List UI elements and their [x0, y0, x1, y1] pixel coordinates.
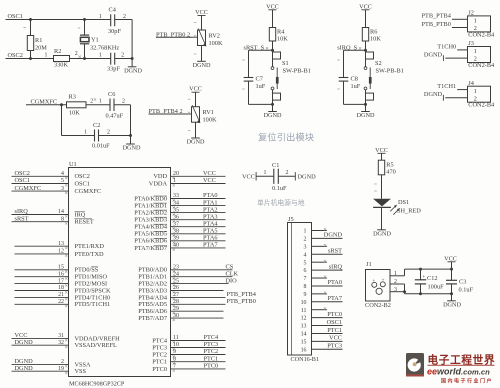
svg-text:DGND: DGND: [373, 230, 391, 237]
svg-text:5: 5: [304, 260, 307, 266]
svg-text:T1CH0: T1CH0: [437, 43, 456, 50]
svg-text:OSC2: OSC2: [8, 52, 23, 59]
svg-text:14: 14: [58, 209, 64, 215]
svg-text:sRST: sRST: [328, 248, 342, 255]
svg-text:DGND: DGND: [15, 365, 34, 372]
svg-text:DS1: DS1: [398, 199, 409, 206]
svg-text:2: 2: [90, 99, 93, 105]
svg-text:PTA5: PTA5: [203, 228, 218, 235]
svg-text:12: 12: [58, 249, 64, 255]
svg-text:VCC: VCC: [329, 335, 342, 342]
svg-text:3: 3: [61, 186, 64, 192]
svg-text:C12: C12: [427, 275, 438, 282]
svg-text:29: 29: [173, 306, 179, 312]
svg-text:16: 16: [58, 271, 64, 277]
svg-text:DGND: DGND: [298, 174, 317, 181]
svg-text:2: 2: [474, 25, 477, 32]
svg-text:T1CH1: T1CH1: [437, 83, 456, 90]
svg-text:33: 33: [173, 193, 179, 199]
svg-text:6: 6: [304, 268, 307, 274]
svg-text:CON2-B4: CON2-B4: [468, 102, 495, 109]
svg-text:PTC3: PTC3: [327, 343, 342, 350]
svg-text:PTA0: PTA0: [327, 279, 342, 286]
svg-text:4: 4: [61, 171, 64, 177]
svg-text:PTA6: PTA6: [203, 235, 218, 242]
svg-text:2: 2: [75, 51, 78, 57]
svg-text:J3: J3: [468, 40, 474, 47]
svg-text:DGND: DGND: [123, 145, 141, 152]
svg-text:C3: C3: [459, 278, 466, 285]
svg-text:J4: J4: [468, 80, 474, 87]
svg-text:470: 470: [386, 169, 395, 176]
svg-text:1: 1: [45, 53, 48, 59]
svg-text:sIRQ: sIRQ: [329, 263, 343, 270]
svg-text:DGND: DGND: [424, 91, 443, 98]
svg-text:38: 38: [173, 229, 179, 235]
svg-text:39: 39: [173, 236, 179, 242]
svg-text:16: 16: [301, 347, 307, 353]
svg-text:DGND: DGND: [324, 232, 343, 239]
svg-text:PTA1: PTA1: [203, 199, 218, 206]
svg-text:1: 1: [264, 170, 267, 176]
svg-text:1: 1: [99, 99, 102, 105]
svg-text:R5: R5: [386, 161, 393, 168]
svg-text:CGMXFC: CGMXFC: [75, 188, 102, 195]
svg-text:PTB_PTB0 2: PTB_PTB0 2: [156, 32, 190, 39]
svg-text:J1: J1: [366, 261, 372, 268]
svg-text:DGND: DGND: [124, 67, 142, 74]
svg-text:PTB_PTB0: PTB_PTB0: [421, 21, 450, 28]
svg-text:37: 37: [173, 221, 179, 227]
svg-text:PTC1: PTC1: [152, 359, 167, 366]
svg-text:PTB7/AD7: PTB7/AD7: [138, 315, 167, 322]
svg-text:28: 28: [173, 299, 179, 305]
svg-text:PTC3: PTC3: [204, 341, 219, 348]
svg-text:OSC1: OSC1: [8, 13, 23, 20]
svg-text:9: 9: [304, 292, 307, 298]
svg-text:R6: R6: [370, 28, 377, 35]
svg-text:J5: J5: [288, 216, 294, 223]
svg-text:PTA5/KBD5: PTA5/KBD5: [134, 231, 167, 238]
svg-text:PTC4: PTC4: [204, 334, 220, 341]
svg-text:1: 1: [99, 14, 102, 20]
svg-text:100uF: 100uF: [428, 283, 445, 290]
svg-text:S2: S2: [375, 60, 382, 67]
svg-text:PTA6/KBD6: PTA6/KBD6: [134, 238, 167, 245]
svg-text:SW-PB-B1: SW-PB-B1: [283, 68, 311, 75]
svg-text:PTC1: PTC1: [327, 327, 342, 334]
svg-text:VCC: VCC: [189, 86, 202, 93]
svg-text:OSC1: OSC1: [75, 180, 90, 187]
svg-text:OSC1: OSC1: [327, 319, 342, 326]
svg-text:VSSAD/VREFL: VSSAD/VREFL: [75, 342, 117, 349]
svg-text:RV1: RV1: [203, 109, 214, 116]
svg-text:C7: C7: [256, 76, 263, 83]
svg-text:330K: 330K: [54, 62, 68, 69]
svg-text:CON16-B1: CON16-B1: [291, 356, 320, 363]
svg-text:DGND: DGND: [193, 62, 211, 69]
svg-text:33pF: 33pF: [107, 65, 120, 72]
svg-text:1: 1: [99, 52, 102, 58]
svg-text:31: 31: [58, 333, 64, 339]
svg-text:15: 15: [58, 265, 64, 271]
svg-text:15: 15: [301, 339, 307, 345]
svg-text:0.1uF: 0.1uF: [272, 185, 287, 192]
svg-text:0.47uF: 0.47uF: [106, 113, 124, 120]
svg-text:13: 13: [58, 241, 64, 247]
svg-text:单片机电源与地: 单片机电源与地: [257, 198, 305, 207]
svg-text:VCC: VCC: [444, 255, 457, 262]
svg-text:U1: U1: [69, 161, 77, 168]
svg-text:8: 8: [61, 216, 64, 222]
svg-text:10K: 10K: [69, 109, 80, 116]
svg-text:8: 8: [173, 356, 176, 362]
svg-text:3: 3: [304, 244, 307, 250]
svg-text:18: 18: [58, 285, 64, 291]
svg-text:PTC0: PTC0: [327, 311, 342, 318]
svg-text:PTC4: PTC4: [152, 337, 168, 344]
svg-text:24: 24: [173, 271, 179, 277]
svg-text:CGMXFC: CGMXFC: [15, 185, 42, 192]
svg-text:DGND: DGND: [264, 112, 282, 119]
svg-text:+: +: [382, 278, 385, 283]
svg-text:7: 7: [173, 364, 176, 370]
svg-text:32: 32: [58, 340, 64, 346]
svg-text:CON2-B4: CON2-B4: [468, 31, 495, 38]
svg-text:SW-PB-B1: SW-PB-B1: [376, 68, 404, 75]
svg-text:C6: C6: [108, 91, 115, 98]
svg-text:S1: S1: [282, 60, 289, 67]
svg-text:PTA4/KBD4: PTA4/KBD4: [134, 224, 168, 231]
svg-text:SH_RED: SH_RED: [397, 207, 421, 214]
svg-text:MC68HC908GP32CP: MC68HC908GP32CP: [69, 381, 125, 388]
svg-text:R4: R4: [277, 28, 285, 35]
svg-text:2: 2: [286, 170, 289, 176]
svg-text:30pF: 30pF: [108, 28, 121, 35]
svg-text:OSC2: OSC2: [75, 173, 90, 180]
svg-text:VCC: VCC: [195, 9, 208, 16]
svg-text:PTB_PTB4: PTB_PTB4: [421, 13, 451, 20]
svg-text:PTA7: PTA7: [203, 242, 218, 249]
svg-text:19: 19: [58, 366, 64, 372]
svg-text:11: 11: [173, 335, 179, 341]
svg-text:IRQ: IRQ: [75, 211, 86, 218]
svg-text:21: 21: [58, 292, 64, 298]
svg-text:PTA2: PTA2: [203, 206, 218, 213]
svg-text:PTE1/RXD: PTE1/RXD: [75, 243, 105, 250]
svg-text:23: 23: [173, 265, 179, 271]
svg-text:1: 1: [304, 229, 307, 235]
svg-text:1: 1: [474, 48, 477, 55]
svg-text:2: 2: [474, 95, 477, 102]
svg-text:2: 2: [122, 99, 125, 105]
svg-text:国内电子行业门户: 国内电子行业门户: [441, 377, 493, 384]
svg-text:35: 35: [173, 207, 179, 213]
svg-text:DGND: DGND: [357, 112, 375, 119]
svg-text:100K: 100K: [209, 40, 223, 47]
svg-text:电子工程世界: 电子工程世界: [428, 354, 496, 367]
svg-text:PTA7: PTA7: [327, 295, 342, 302]
svg-text:sRST: sRST: [15, 215, 29, 222]
svg-text:+: +: [372, 279, 375, 284]
svg-text:7: 7: [304, 276, 307, 282]
svg-text:1: 1: [474, 18, 477, 25]
svg-text:2: 2: [304, 237, 307, 243]
svg-text:32.768KHz: 32.768KHz: [90, 44, 119, 51]
svg-text:+: +: [422, 274, 425, 280]
svg-text:VCC: VCC: [203, 170, 216, 177]
svg-text:VDD: VDD: [153, 173, 167, 180]
svg-text:VDDA: VDDA: [149, 180, 168, 187]
svg-text:0.01uF: 0.01uF: [92, 142, 110, 149]
svg-text:20M: 20M: [35, 44, 47, 51]
svg-text:R1: R1: [35, 37, 42, 44]
svg-text:10K: 10K: [277, 36, 288, 43]
svg-text:25: 25: [173, 278, 179, 284]
svg-text:PTC0: PTC0: [152, 366, 167, 373]
svg-text:10: 10: [173, 342, 179, 348]
svg-text:PTA0/KBD0: PTA0/KBD0: [134, 195, 167, 202]
svg-text:34: 34: [173, 200, 179, 206]
svg-text:13: 13: [301, 324, 307, 330]
svg-text:C4: C4: [109, 7, 117, 14]
svg-text:J2: J2: [468, 10, 474, 17]
svg-text:DGND: DGND: [443, 301, 461, 308]
svg-text:C2: C2: [93, 122, 100, 129]
svg-text:1: 1: [84, 129, 87, 135]
svg-text:PTA7/KBD7: PTA7/KBD7: [134, 245, 167, 252]
svg-text:2: 2: [474, 56, 477, 63]
svg-text:VCC: VCC: [375, 147, 388, 154]
svg-text:PTA4: PTA4: [203, 220, 218, 227]
svg-text:PTB_PTB4 2: PTB_PTB4 2: [149, 108, 183, 115]
svg-text:RESET: RESET: [75, 219, 94, 226]
svg-text:CON2-B2: CON2-B2: [365, 302, 391, 309]
svg-text:5: 5: [61, 178, 64, 184]
svg-text:PTC1: PTC1: [204, 355, 219, 362]
svg-text:1: 1: [474, 88, 477, 95]
svg-text:DIO: DIO: [226, 277, 238, 284]
svg-text:1: 1: [173, 178, 176, 184]
svg-text:sIRQ: sIRQ: [15, 208, 29, 215]
svg-text:CON2-B4: CON2-B4: [468, 62, 495, 69]
svg-text:PTA0: PTA0: [203, 192, 218, 199]
svg-text:RV2: RV2: [209, 33, 220, 40]
svg-text:2: 2: [121, 52, 124, 58]
svg-text:DGND: DGND: [187, 139, 205, 146]
svg-text:2: 2: [61, 359, 64, 365]
svg-text:PTC3: PTC3: [152, 344, 167, 351]
svg-text:PTA2/KBD2: PTA2/KBD2: [134, 210, 167, 217]
svg-text:eeworld.com.cn: eeworld.com.cn: [427, 367, 490, 377]
svg-text:11: 11: [301, 308, 307, 314]
svg-text:26: 26: [173, 285, 179, 291]
svg-text:Y1: Y1: [91, 37, 99, 44]
svg-text:20: 20: [173, 171, 179, 177]
svg-text:PTE0/TXD: PTE0/TXD: [75, 251, 104, 258]
svg-text:OSC1: OSC1: [15, 177, 30, 184]
svg-text:DGND: DGND: [424, 52, 443, 59]
svg-text:PTC2: PTC2: [204, 348, 219, 355]
svg-text:1uF: 1uF: [351, 83, 361, 90]
svg-text:PTA3: PTA3: [203, 213, 218, 220]
svg-text:22: 22: [58, 299, 64, 305]
svg-text:17: 17: [58, 278, 64, 284]
svg-text:27: 27: [173, 292, 179, 298]
svg-text:PTA1/KBD1: PTA1/KBD1: [134, 203, 167, 210]
svg-text:10: 10: [301, 300, 307, 306]
svg-text:2: 2: [123, 14, 126, 20]
svg-text:VCC: VCC: [203, 177, 216, 184]
svg-text:C8: C8: [351, 76, 358, 83]
svg-text:PTD5/T1CH1: PTD5/T1CH1: [75, 301, 111, 308]
svg-text:8: 8: [304, 284, 307, 290]
svg-text:10K: 10K: [370, 36, 381, 43]
svg-text:9: 9: [173, 349, 176, 355]
svg-text:2: 2: [107, 129, 110, 135]
svg-text:0.1uF: 0.1uF: [459, 286, 474, 293]
svg-text:R2: R2: [54, 48, 61, 55]
svg-text:PTC2: PTC2: [152, 351, 167, 358]
svg-text:C1: C1: [272, 162, 279, 169]
svg-text:PTB_PTB0: PTB_PTB0: [227, 298, 256, 305]
svg-text:复位引出模块: 复位引出模块: [258, 132, 314, 143]
svg-text:VSS: VSS: [75, 368, 87, 375]
svg-text:1uF: 1uF: [256, 83, 266, 90]
svg-text:PTC0: PTC0: [204, 363, 219, 370]
svg-text:14: 14: [301, 332, 307, 338]
svg-text:30: 30: [173, 313, 179, 319]
svg-text:4: 4: [304, 252, 307, 258]
svg-text:12: 12: [301, 316, 307, 322]
svg-text:R3: R3: [69, 94, 76, 101]
svg-text:100K: 100K: [203, 117, 217, 124]
svg-text:40: 40: [173, 243, 179, 249]
svg-text:OSC2: OSC2: [15, 170, 30, 177]
svg-text:DGND: DGND: [15, 339, 34, 346]
svg-text:PTA3/KBD3: PTA3/KBD3: [134, 217, 167, 224]
svg-text:VCC: VCC: [242, 174, 255, 181]
svg-text:36: 36: [173, 214, 179, 220]
